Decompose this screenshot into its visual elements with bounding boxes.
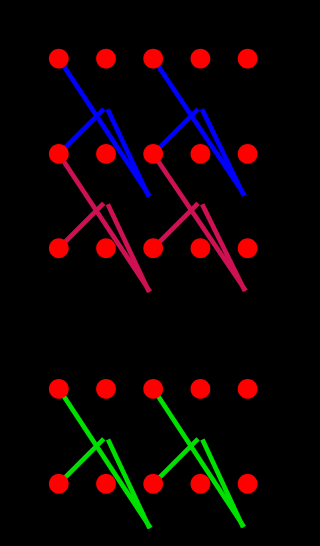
- wire green GS1b: [153, 439, 198, 484]
- wire blue S1a: [59, 109, 104, 154]
- node row5 dot5: [238, 474, 258, 494]
- wire crimson CA2: [153, 154, 246, 291]
- wire green GB1: [108, 440, 150, 529]
- node row1 dot2: [96, 49, 116, 69]
- wire crimson CS1b: [153, 203, 198, 248]
- wire crimson CS1a: [59, 203, 104, 248]
- node row4 dot3: [143, 379, 163, 399]
- node row5 dot4: [191, 474, 211, 494]
- node row5 dot3: [143, 474, 163, 494]
- node row4 dot2: [96, 379, 116, 399]
- wire green GB2: [202, 440, 243, 528]
- wire crimson CB2: [202, 204, 245, 290]
- wire crimson CB1: [108, 204, 149, 291]
- node row4 dot5: [238, 379, 258, 399]
- wire blue B1: [108, 109, 149, 196]
- node row2 dot5: [238, 144, 258, 164]
- node row5 dot1: [49, 474, 69, 494]
- node row2 dot2: [96, 144, 116, 164]
- node row1 dot4: [191, 49, 211, 69]
- wire blue B2: [202, 109, 244, 195]
- node row3 dot5: [238, 238, 258, 258]
- wire blue S1b: [153, 109, 198, 154]
- wire green GA2: [153, 389, 244, 527]
- node row2 dot1: [49, 144, 69, 164]
- wire blue A2: [153, 59, 245, 196]
- node row4 dot4: [191, 379, 211, 399]
- wire green GS1a: [59, 439, 104, 484]
- node row2 dot3: [143, 144, 163, 164]
- wire green GA1: [59, 389, 151, 528]
- node row3 dot2: [96, 238, 116, 258]
- wire blue A1: [59, 59, 150, 197]
- node row4 dot1: [49, 379, 69, 399]
- node row3 dot1: [49, 238, 69, 258]
- node row1 dot1: [49, 49, 69, 69]
- wire crimson CA1: [59, 154, 150, 292]
- node row3 dot4: [191, 238, 211, 258]
- node row3 dot3: [143, 238, 163, 258]
- node row1 dot3: [143, 49, 163, 69]
- node row2 dot4: [191, 144, 211, 164]
- node row5 dot2: [96, 474, 116, 494]
- node row1 dot5: [238, 49, 258, 69]
